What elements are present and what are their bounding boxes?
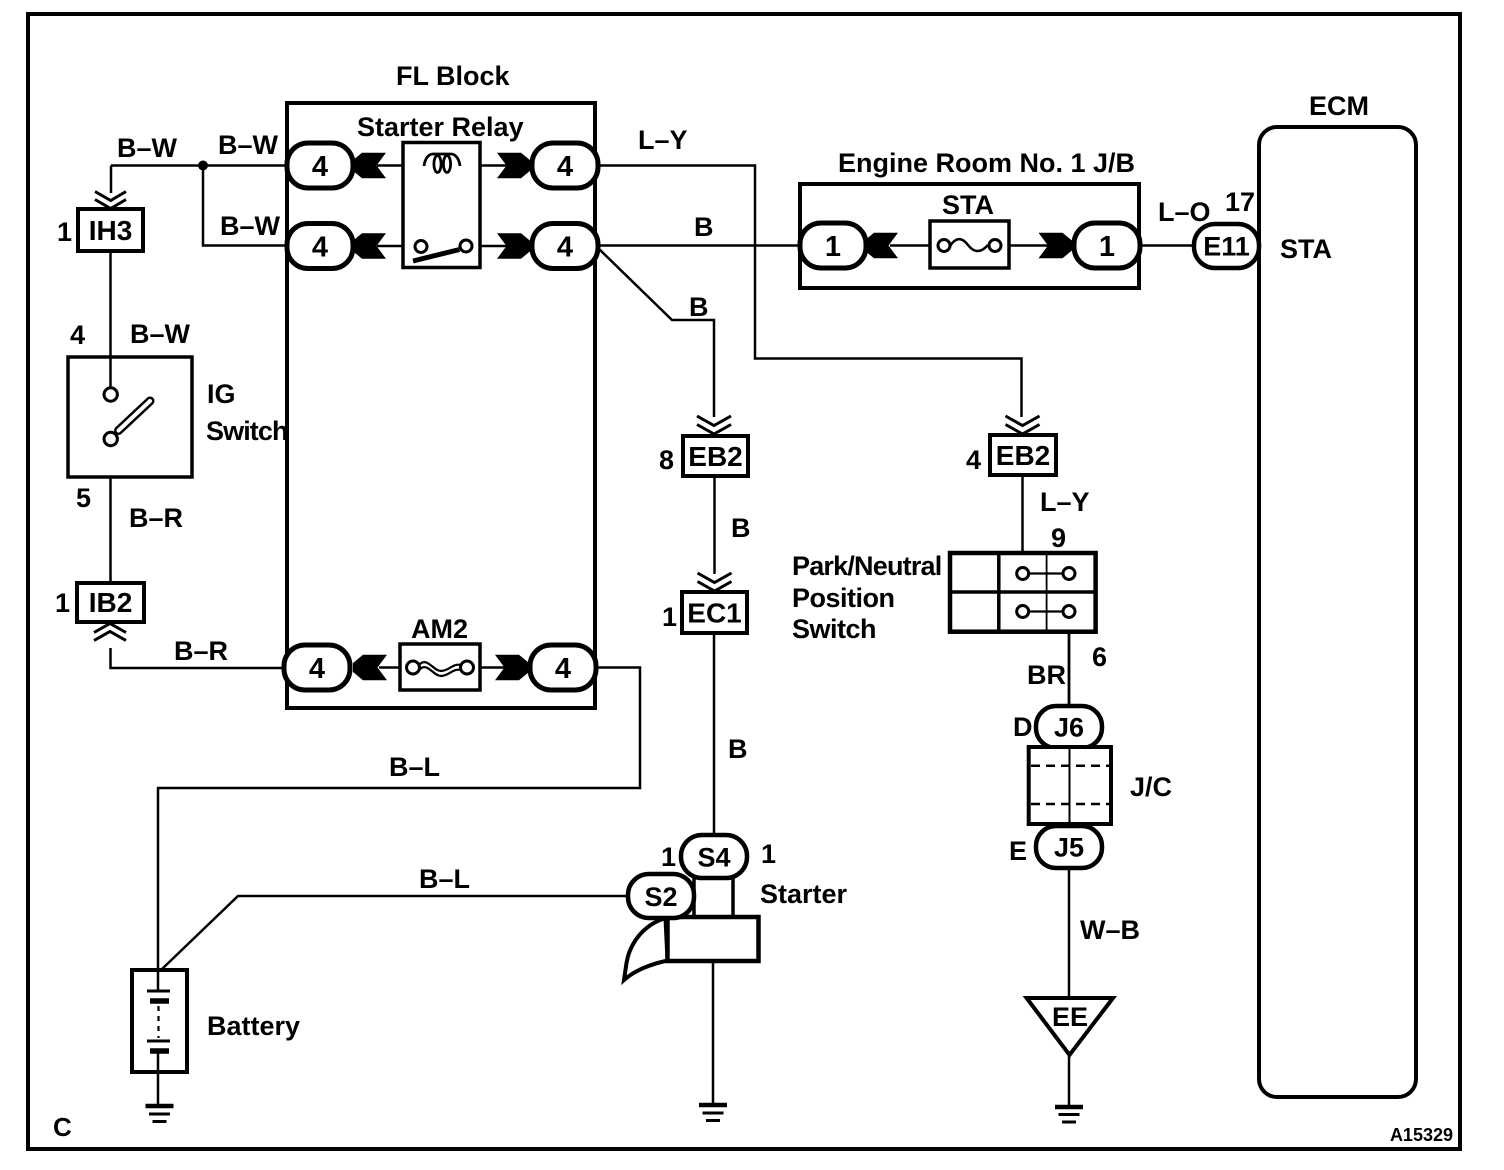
arrow right STA bbox=[1039, 233, 1073, 259]
battery bbox=[132, 970, 187, 1072]
label B-W 4 bbox=[130, 319, 191, 349]
svg-text:IH3: IH3 bbox=[89, 215, 133, 246]
pin oval 4 relay row1 right bbox=[532, 143, 598, 188]
svg-text:B: B bbox=[728, 734, 748, 764]
wire L-O J/B to ECM E11 bbox=[1139, 244, 1196, 247]
wire B-L AM2 out to battery bbox=[158, 668, 640, 992]
label Park/Neutral bbox=[792, 551, 941, 581]
pin label 8 EB2 bbox=[659, 445, 674, 475]
svg-text:STA: STA bbox=[1280, 234, 1332, 264]
junction block J/C bbox=[1029, 747, 1111, 824]
svg-text:B–W: B–W bbox=[117, 133, 178, 163]
connector IH3 bbox=[78, 192, 143, 252]
svg-text:EB2: EB2 bbox=[688, 441, 742, 472]
label ECM bbox=[1309, 91, 1369, 121]
starter motor bbox=[624, 877, 759, 980]
label Switch bbox=[792, 614, 876, 644]
svg-text:1: 1 bbox=[55, 588, 70, 618]
label B-W 1 bbox=[117, 133, 178, 163]
label B 2 diagonal bbox=[689, 292, 709, 322]
wire B relay out to Engine Room J/B bbox=[598, 244, 801, 247]
pin label 4 EB2 bbox=[966, 445, 981, 475]
connector oval S4 bbox=[681, 835, 747, 878]
svg-text:4: 4 bbox=[557, 151, 573, 183]
svg-text:B–L: B–L bbox=[389, 752, 440, 782]
svg-text:4: 4 bbox=[966, 445, 981, 475]
svg-text:Starter Relay: Starter Relay bbox=[357, 112, 524, 142]
label W-B bbox=[1080, 915, 1140, 945]
svg-text:L–O: L–O bbox=[1158, 197, 1211, 227]
pin label 1 EC1 bbox=[662, 602, 677, 632]
svg-text:5: 5 bbox=[76, 483, 91, 513]
svg-text:Engine Room No. 1 J/B: Engine Room No. 1 J/B bbox=[838, 148, 1135, 178]
Engine Room No.1 J/B box bbox=[800, 184, 1139, 288]
ECM box bbox=[1259, 127, 1416, 1097]
pin label 4 IG bbox=[70, 320, 85, 350]
svg-text:B–L: B–L bbox=[419, 864, 470, 894]
svg-text:1: 1 bbox=[1099, 231, 1115, 263]
label Position bbox=[792, 583, 895, 613]
svg-text:L–Y: L–Y bbox=[1040, 487, 1090, 517]
svg-text:IB2: IB2 bbox=[89, 587, 133, 618]
label FL Block bbox=[396, 61, 511, 91]
svg-text:17: 17 bbox=[1225, 187, 1255, 217]
wire B-L battery to S2 bbox=[162, 896, 628, 969]
svg-text:ECM: ECM bbox=[1309, 91, 1369, 121]
svg-text:EE: EE bbox=[1052, 1002, 1088, 1032]
svg-text:Starter: Starter bbox=[760, 879, 848, 909]
pin label 6 bbox=[1092, 642, 1107, 672]
pin label 1 IB2 bbox=[55, 588, 70, 618]
label B-R 2 bbox=[174, 636, 228, 666]
label B 1 bbox=[694, 212, 714, 242]
svg-text:4: 4 bbox=[312, 151, 328, 183]
pin oval 4 AM2 right bbox=[530, 645, 596, 690]
pin label 9 bbox=[1051, 523, 1066, 553]
label B 4 bbox=[728, 734, 748, 764]
arrow right AM2 bbox=[495, 655, 529, 681]
arrow left row1 bbox=[352, 153, 386, 179]
arrow left AM2 bbox=[353, 655, 387, 681]
svg-text:STA: STA bbox=[942, 190, 994, 220]
svg-text:B–R: B–R bbox=[129, 503, 183, 533]
label B-L 1 bbox=[389, 752, 440, 782]
label IG Switch line2 bbox=[206, 416, 288, 446]
svg-text:B–W: B–W bbox=[218, 130, 279, 160]
label B-W 2 bbox=[218, 130, 279, 160]
svg-text:Position: Position bbox=[792, 583, 895, 613]
label STA ECM pin bbox=[1280, 234, 1332, 264]
svg-text:1: 1 bbox=[761, 839, 776, 869]
wire B diagonal relay out to EB2 connector 8 bbox=[598, 248, 714, 417]
wire starter body to ground bbox=[712, 961, 715, 1104]
arrow right row1 bbox=[497, 153, 531, 179]
pin oval 4 relay row2 left bbox=[287, 224, 353, 269]
svg-text:S4: S4 bbox=[697, 843, 730, 873]
wire B-R IG switch pin 5 to IB2 bbox=[109, 446, 112, 583]
wire L-Y EB2 to park neutral switch pin 9 bbox=[1021, 475, 1024, 553]
svg-text:B–W: B–W bbox=[220, 211, 281, 241]
svg-text:1: 1 bbox=[662, 602, 677, 632]
svg-text:4: 4 bbox=[312, 232, 328, 264]
label B 3 bbox=[731, 513, 751, 543]
connector EB2 pin8 bbox=[683, 416, 748, 476]
arrow right row2 bbox=[497, 233, 531, 259]
wire J/B STA row internal bbox=[890, 244, 1049, 247]
wire EE to ground bbox=[1068, 1055, 1071, 1106]
label Starter Relay bbox=[357, 112, 524, 142]
pin label 1 S4 left bbox=[661, 842, 676, 872]
arrow left row2 bbox=[352, 233, 386, 259]
wire B-R IB2 to AM2 fuse pin 4 bbox=[111, 648, 287, 668]
wire B-W junction to relay pin 4 row2 bbox=[203, 166, 287, 246]
svg-text:D: D bbox=[1013, 712, 1033, 742]
label B-W 3 bbox=[220, 211, 281, 241]
svg-text:FL Block: FL Block bbox=[396, 61, 511, 91]
label B-R 1 bbox=[129, 503, 183, 533]
wire AM2 row internal bbox=[379, 666, 506, 669]
connector oval S2 bbox=[628, 874, 694, 918]
svg-text:8: 8 bbox=[659, 445, 674, 475]
svg-text:J5: J5 bbox=[1054, 833, 1084, 863]
relay switch contacts bbox=[413, 240, 472, 261]
pin oval 4 AM2 left bbox=[284, 645, 350, 690]
FL Block box bbox=[287, 103, 595, 708]
connector EC1 bbox=[682, 573, 747, 633]
svg-text:C: C bbox=[53, 1112, 72, 1142]
svg-text:A15329: A15329 bbox=[1390, 1125, 1453, 1145]
relay coil bbox=[424, 154, 460, 173]
svg-text:1: 1 bbox=[661, 842, 676, 872]
label Battery bbox=[207, 1011, 300, 1041]
fuse STA box bbox=[930, 221, 1009, 268]
svg-text:Switch: Switch bbox=[206, 416, 288, 446]
label AM2 bbox=[411, 614, 468, 644]
svg-text:B: B bbox=[689, 292, 709, 322]
svg-text:Switch: Switch bbox=[792, 614, 876, 644]
connector oval E11 bbox=[1194, 224, 1259, 268]
label J/C bbox=[1130, 772, 1172, 802]
park neutral position switch box bbox=[950, 553, 1096, 632]
svg-text:L–Y: L–Y bbox=[638, 125, 688, 155]
node junction dot B-W bbox=[198, 161, 208, 171]
svg-text:4: 4 bbox=[309, 653, 325, 685]
IG switch box bbox=[68, 357, 192, 477]
wire relay row2 internal bbox=[377, 245, 508, 248]
wire B EC1 to starter S4 bbox=[713, 633, 716, 835]
pin label 1 IH3 bbox=[57, 217, 72, 247]
wire relay row1 internal bbox=[377, 164, 508, 167]
svg-text:4: 4 bbox=[557, 232, 573, 264]
pin label E bbox=[1009, 836, 1027, 866]
pin oval 4 relay row2 right bbox=[532, 224, 598, 269]
label B-L 2 bbox=[419, 864, 470, 894]
svg-text:BR: BR bbox=[1027, 660, 1066, 690]
wire B-W from junction to IH3 drop bbox=[111, 166, 287, 194]
svg-text:S2: S2 bbox=[644, 882, 677, 912]
label L-Y 2 bbox=[1040, 487, 1090, 517]
svg-text:J/C: J/C bbox=[1130, 772, 1172, 802]
svg-text:B–W: B–W bbox=[130, 319, 191, 349]
svg-text:AM2: AM2 bbox=[411, 614, 468, 644]
ground symbol starter bbox=[699, 1105, 727, 1121]
fuse AM2 box bbox=[400, 644, 480, 690]
wire B-W IH3 to IG switch pin 4 bbox=[109, 251, 112, 388]
svg-text:Battery: Battery bbox=[207, 1011, 300, 1041]
pin oval 1 J/B right bbox=[1074, 223, 1140, 268]
svg-text:EC1: EC1 bbox=[687, 598, 741, 629]
label BR bbox=[1027, 660, 1066, 690]
wire battery to ground bbox=[157, 1055, 160, 1105]
svg-text:1: 1 bbox=[825, 231, 841, 263]
ground EE triangle bbox=[1027, 998, 1113, 1055]
ground symbol battery bbox=[146, 1106, 174, 1122]
connector oval J6 bbox=[1036, 706, 1102, 748]
wire W-B J5 to EE bbox=[1068, 868, 1071, 998]
svg-text:IG: IG bbox=[207, 379, 236, 409]
connector oval J5 bbox=[1036, 826, 1102, 868]
label L-O bbox=[1158, 197, 1211, 227]
label IG Switch line1 bbox=[207, 379, 236, 409]
ground symbol EE bbox=[1055, 1107, 1083, 1122]
label Starter bbox=[760, 879, 848, 909]
label L-Y 1 bbox=[638, 125, 688, 155]
label C bbox=[53, 1112, 72, 1142]
connector EB2 pin4 bbox=[990, 416, 1056, 475]
svg-text:B–R: B–R bbox=[174, 636, 228, 666]
connector IB2 bbox=[77, 583, 144, 641]
relay K1 starter relay box bbox=[403, 143, 480, 268]
label A15329 bbox=[1390, 1125, 1453, 1145]
svg-text:4: 4 bbox=[70, 320, 85, 350]
wire B EB2 to EC1 bbox=[713, 476, 716, 574]
pin label 5 IG bbox=[76, 483, 91, 513]
svg-text:E11: E11 bbox=[1203, 232, 1250, 262]
svg-text:B: B bbox=[731, 513, 751, 543]
pin label 1 S4 right bbox=[761, 839, 776, 869]
pin oval 4 relay row1 left bbox=[287, 143, 353, 188]
wire BR park neutral switch pin 6 to J6 bbox=[1068, 632, 1071, 706]
svg-text:Park/Neutral: Park/Neutral bbox=[792, 551, 941, 581]
label STA fuse bbox=[942, 190, 994, 220]
pin label D bbox=[1013, 712, 1033, 742]
pin oval 1 J/B left bbox=[800, 223, 866, 268]
label Engine Room No. 1 J/B bbox=[838, 148, 1135, 178]
svg-text:1: 1 bbox=[57, 217, 72, 247]
svg-text:EB2: EB2 bbox=[996, 440, 1050, 471]
svg-text:E: E bbox=[1009, 836, 1027, 866]
pin label 17 bbox=[1225, 187, 1255, 217]
svg-text:9: 9 bbox=[1051, 523, 1066, 553]
svg-text:B: B bbox=[694, 212, 714, 242]
arrow left STA bbox=[864, 233, 898, 259]
svg-text:6: 6 bbox=[1092, 642, 1107, 672]
wire L-Y relay out to EB2 connector 4 bbox=[598, 166, 1022, 418]
svg-text:W–B: W–B bbox=[1080, 915, 1140, 945]
svg-text:4: 4 bbox=[555, 653, 571, 685]
svg-text:J6: J6 bbox=[1054, 713, 1084, 743]
